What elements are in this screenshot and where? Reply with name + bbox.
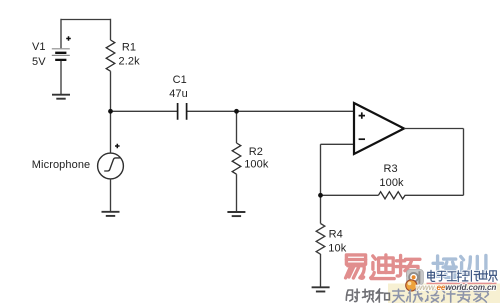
svg-text:Microphone: Microphone <box>32 159 90 171</box>
svg-text:100k: 100k <box>379 177 404 189</box>
svg-text:R2: R2 <box>249 146 263 158</box>
svg-text:100k: 100k <box>244 158 269 170</box>
svg-text:R1: R1 <box>122 41 136 53</box>
svg-text:47u: 47u <box>169 88 188 100</box>
svg-text:www.eeworld.com.cn: www.eeworld.com.cn <box>416 283 496 292</box>
svg-text:R4: R4 <box>329 228 343 240</box>
svg-text:5V: 5V <box>32 56 46 68</box>
svg-text:C1: C1 <box>173 74 187 86</box>
svg-text:V1: V1 <box>32 41 46 53</box>
svg-text:R3: R3 <box>384 163 398 175</box>
svg-text:2.2k: 2.2k <box>119 56 141 68</box>
svg-text:10k: 10k <box>328 242 346 254</box>
